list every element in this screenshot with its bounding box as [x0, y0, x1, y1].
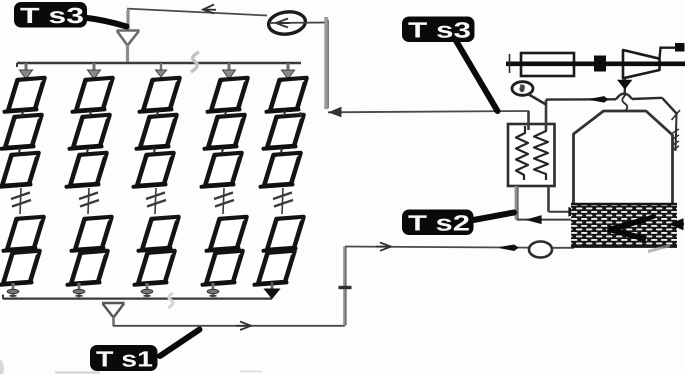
panel col1 row2: [2, 115, 42, 149]
pump P1 (ellipse): [267, 10, 306, 36]
liquid surface line: [571, 203, 677, 205]
pipe break col1: [11, 188, 31, 214]
tank bottom line: [571, 245, 677, 248]
right coil bottom pipe down: [547, 186, 550, 212]
hatched drop to tank wall: [673, 114, 680, 152]
panel col1 row3: [0, 153, 39, 187]
left coil bottom pipe down: [515, 186, 519, 220]
panel col3 row1: [140, 78, 180, 112]
panel col2 row3: [67, 153, 107, 187]
faint break squiggle on bottom header: [168, 293, 173, 308]
temperature gauge: [512, 82, 533, 96]
column drop arrow 3: [156, 63, 167, 77]
label T s1 pointer: [160, 330, 200, 357]
steam line from exchanger to tank right side: [546, 98, 616, 101]
loop pump circle on tank line: [529, 242, 552, 258]
panel col4 row4: [207, 217, 247, 251]
column drop arrow 2: [88, 63, 101, 79]
svg-text:T s3: T s3: [20, 3, 84, 28]
bottom return header pipe: [3, 298, 272, 300]
break squiggle on top header: [191, 52, 199, 72]
top pipe from funnel to pump: [127, 9, 267, 16]
panel col5 row1: [267, 78, 307, 112]
right coil zigzag: [534, 125, 548, 180]
chevron arrow on tank line: [380, 243, 391, 251]
panel col3 row2: [137, 115, 177, 149]
pipe break col2: [79, 188, 99, 214]
heat exchanger shell: [508, 124, 555, 186]
svg-text:T s3: T s3: [408, 18, 471, 43]
slash tick on diagonal: [672, 110, 681, 120]
shaft: [506, 61, 685, 66]
label T s2: [402, 210, 474, 236]
solid black arrow before loop pump: [500, 245, 518, 250]
return line from heat exchanger to pump riser: [328, 111, 529, 112]
row connectors col1: [19, 111, 23, 153]
right chevron arrow on outlet line: [240, 322, 251, 331]
left coil zigzag: [516, 126, 528, 180]
right coil top pipe: [545, 100, 548, 130]
turbine outlet pipe down: [624, 78, 626, 96]
pipe from tank to exchanger (lower): [517, 219, 576, 221]
turbine exhaust line: [660, 48, 678, 59]
black arrow on steam line: [590, 97, 608, 102]
panel col4 row1: [208, 78, 248, 112]
hot outlet line to riser: [113, 325, 345, 327]
panel col2 row4: [72, 217, 112, 251]
panel col2 row1: [73, 78, 113, 112]
shaft end tick: [509, 54, 511, 73]
right arrowhead into tank: [569, 208, 581, 216]
label T s1: [90, 345, 158, 371]
panel col3 row4: [139, 217, 179, 251]
inlet funnel (top, below T s3 label): [117, 10, 140, 62]
pipe break col5: [273, 188, 293, 214]
mount col3: [141, 283, 153, 298]
pump internal line and left arrowhead: [269, 22, 326, 25]
panel col1 row5: [0, 251, 40, 285]
gauge glyph: [519, 86, 524, 92]
left arrowhead on return line: [330, 108, 342, 117]
terminal square: [675, 43, 685, 52]
left arrowhead on lower pipe: [528, 216, 542, 223]
line from loop pump into tank: [552, 247, 574, 249]
gauge link line: [528, 94, 546, 105]
panel col1 row4: [4, 217, 44, 251]
coupling block: [594, 56, 606, 72]
corner smudge: [0, 360, 4, 374]
column drop arrow 5: [282, 63, 295, 79]
long line to tank bottom: [345, 247, 529, 248]
pipe break col4: [214, 188, 234, 214]
pipe from exchanger into tank: [549, 211, 573, 213]
right inlet arrow at tank wall: [671, 223, 684, 225]
pipe break col3: [146, 188, 166, 214]
svg-text:T s2: T s2: [408, 211, 470, 236]
panel col4 row2: [205, 115, 245, 149]
svg-text:T s1: T s1: [96, 347, 153, 372]
generator G: [521, 53, 574, 76]
stray mark: [298, 112, 302, 116]
label T s2 pointer: [468, 213, 514, 222]
panel col5 row5: [255, 251, 295, 285]
column drop arrow 1: [20, 63, 33, 79]
hop over turbine pipe: [616, 94, 632, 100]
storage tank body: [574, 111, 673, 247]
union tick on riser: [339, 286, 352, 289]
supply pipe down into left coil: [527, 111, 530, 130]
mount col4: [207, 283, 219, 298]
turbine T (trapezoid): [623, 50, 660, 78]
panel col3 row3: [134, 153, 174, 187]
panel col2 row2: [70, 115, 110, 149]
liquid hatch fill: [571, 204, 677, 247]
panel col1 row1: [5, 78, 45, 112]
squiggle joint on pipe into tank: [622, 96, 627, 111]
panel col5 row4: [264, 217, 304, 251]
mount col2: [73, 283, 85, 298]
row connectors col2: [87, 111, 91, 153]
panel col5 row2: [264, 115, 304, 149]
smudge below tank bottom: [648, 246, 670, 252]
top supply header pipe: [17, 62, 301, 65]
diagonal down to tank wall: [662, 98, 677, 114]
mount col5 with arrow: [265, 282, 280, 299]
label T s3 (exchanger inlet): [402, 17, 475, 43]
label T s3 (exchanger inlet) pointer: [455, 39, 498, 111]
outlet funnel (bottom, above T s1 label): [102, 303, 125, 326]
pump outlet pipe down (gray riser): [324, 17, 328, 109]
column drop arrow 4: [223, 63, 236, 79]
panel col3 row5: [135, 251, 175, 285]
panel col4 row5: [203, 251, 243, 285]
label T s3 (collector inlet) pointer: [84, 18, 127, 27]
label T s3 (collector inlet): [14, 2, 87, 28]
riser pipe up: [343, 247, 346, 326]
row connectors col4: [222, 111, 226, 153]
internal flow chevron: [610, 220, 646, 240]
mount col1: [7, 283, 19, 298]
flow arrow (left) on top pipe: [203, 5, 214, 14]
panel col5 row3: [261, 153, 301, 187]
panel col2 row5: [68, 251, 108, 285]
row connectors col5: [281, 111, 285, 153]
panel col4 row3: [202, 153, 242, 187]
row connectors col3: [154, 111, 158, 153]
down arrowhead on turbine outlet: [619, 81, 632, 89]
